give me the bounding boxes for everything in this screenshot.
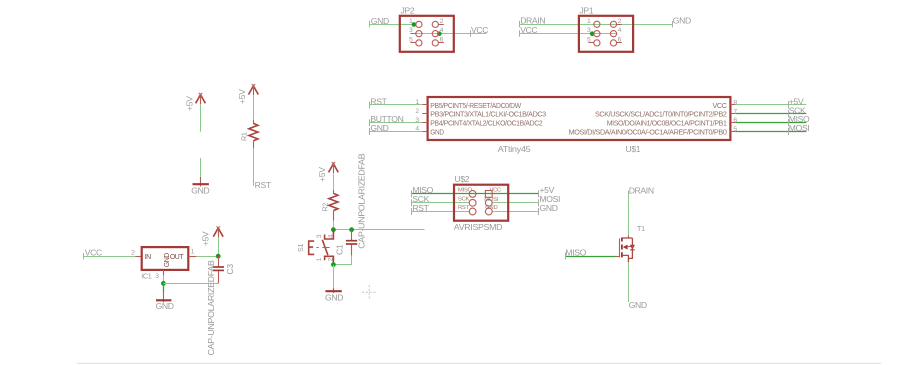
label +5V tick [788,101,790,108]
svg-text:VCC: VCC [85,248,102,258]
wire DRAIN to T1 [628,195,630,236]
label GND tick (right) [672,21,674,28]
R1 bottom pin [253,141,255,149]
ground symbol below S1 [325,288,343,303]
svg-text:IC1: IC1 [141,272,152,281]
svg-text:VCC: VCC [520,25,537,35]
U$1 left pin stubs 1-4 [422,105,427,132]
IC1 pin 2 stub [135,256,142,258]
net MISO wire (through row 1) [411,193,539,195]
wire IC1 gnd down [163,275,165,283]
net GND wire (right row 3) [492,211,539,213]
capacitor C1 [333,153,366,264]
svg-text:ATtiny45: ATtiny45 [498,144,531,154]
svg-text:1: 1 [191,249,195,256]
svg-text:2: 2 [618,18,622,25]
C1 bottom pin [351,245,353,256]
C1 bottom plate [346,243,357,245]
svg-text:GND: GND [540,203,558,213]
+5V arrow pin [333,164,335,173]
label VCC tick [519,30,521,37]
net RST wire [411,211,469,213]
svg-text:MOSI/DI/SDA/AIN0/OC0A/-OC1A/AR: MOSI/DI/SDA/AIN0/OC0A/-OC1A/AREF/PCINT0/… [569,127,727,136]
S1 bottom bracket [325,256,334,264]
label RST tick [369,102,371,109]
T1 body diode triangle [630,245,635,250]
wire +5V to R1 [253,95,255,120]
label SCK tick [788,110,790,117]
+5V arrow pin [218,228,220,237]
S1 top bracket [325,230,334,239]
IC1 pin 3 stub (bottom) [163,270,165,275]
+5V arrow apex cross [216,226,220,230]
svg-text:GND: GND [156,301,174,311]
wire IC1 out to junction [196,256,218,258]
+5V arrow [213,228,223,237]
svg-text:GND: GND [673,16,691,26]
svg-text:VCC: VCC [471,25,488,35]
svg-text:CAP-UNPOLARIZEDFAB: CAP-UNPOLARIZEDFAB [356,153,366,249]
U$1 left net wires [370,96,423,135]
svg-text:U$2: U$2 [455,174,470,184]
GND bar [193,183,209,185]
svg-text:GND: GND [371,16,389,26]
wire R1 to RST [253,148,255,182]
svg-text:5: 5 [409,36,413,43]
junction dot JP2 pin 1 [412,22,417,27]
U$2 pad MISO [469,191,476,198]
T1 channel segments [621,238,623,258]
wire R2 to junction [333,221,335,230]
svg-text:IN: IN [145,254,151,261]
IC1 pin 1 stub [188,256,196,258]
svg-text:3: 3 [587,27,591,34]
label SCK tick [411,199,413,206]
svg-text:1: 1 [587,18,591,25]
U$2 pad GND [485,208,492,215]
ground bar [156,299,171,301]
resistor R2 [321,173,338,230]
+5V arrow pin [200,95,202,104]
label GND tick [538,208,540,215]
R1 top pin [253,120,255,124]
U$1 right pin stubs 8-5 [730,105,735,132]
svg-text:VCC: VCC [490,187,502,193]
+5V arrow [329,164,339,173]
JP2 pin stubs [410,25,443,43]
svg-text:R2: R2 [321,203,330,212]
frame bottom edge [77,362,881,364]
power +5V symbol above C3 [201,226,224,258]
svg-text:GND: GND [325,293,343,303]
junction dot S1 bottom [331,262,336,267]
label VCC tick [83,253,85,260]
net BUTTON wire [333,229,424,231]
net BUTTON wire [370,122,423,124]
switch S1 [296,230,335,265]
svg-text:RST: RST [412,203,429,213]
resistor R1 [240,95,272,190]
svg-text:SCK/USCK/SCL/ADC1/T0/INT0/PCIN: SCK/USCK/SCL/ADC1/T0/INT0/PCINT2/PB2 [595,110,727,119]
ground pin [333,288,335,293]
svg-text:1: 1 [415,99,419,106]
svg-text:RST: RST [370,96,387,106]
net +5V wire [736,104,807,106]
C1 top plate [346,240,357,242]
wire gnd junction to C3 [163,283,218,285]
svg-text:AVRISPSMD: AVRISPSMD [454,222,503,232]
U$2 pad VCC (square) [485,191,492,198]
junction dot JP1 pin 3 [590,31,595,36]
JP1 pin stubs [588,25,621,43]
R1 zigzag [249,123,258,140]
svg-text:JP2: JP2 [401,6,415,16]
svg-text:4: 4 [327,234,334,238]
svg-text:VCC: VCC [713,101,728,110]
wire S1 bottom to ground [333,265,335,288]
C3 top plate [213,266,224,268]
svg-text:2: 2 [131,249,135,256]
svg-text:+5V: +5V [201,231,211,246]
transistor T1 [565,185,653,310]
net MOSI wire (right row 2) [492,202,539,204]
svg-text:4: 4 [618,27,622,34]
label VCC tick [470,30,472,37]
svg-text:C3: C3 [225,264,235,275]
T1 gate pin [615,256,620,258]
U$2 pad SCK [469,199,476,206]
wire gnd junction down [163,283,165,292]
svg-text:1: 1 [409,18,413,25]
S1 actuator dashes [316,247,329,249]
svg-text:1: 1 [316,257,323,261]
JP2 body [400,16,454,52]
net MISO wire to gate [565,256,615,258]
T1 body diode bar [630,249,634,251]
svg-text:MOSI: MOSI [789,123,810,133]
svg-text:6: 6 [440,36,444,43]
svg-text:2: 2 [415,108,419,115]
voltage regulator IC1 [84,247,219,311]
label BUTTON tick [369,119,371,126]
svg-text:GND: GND [370,123,388,133]
U$2 body [454,185,508,221]
svg-text:+5V: +5V [317,167,327,182]
T1 source link [623,255,629,262]
label MISO tick [788,119,790,126]
svg-text:MISO/DO/AIN1/OC0B/OC1A/PCINT1/: MISO/DO/AIN1/OC0B/OC1A/PCINT1/PB1 [607,119,727,128]
net SCK wire [411,202,469,204]
T1 gate bar [619,239,621,258]
label DRAIN tick [628,191,630,197]
svg-text:SCK: SCK [458,196,470,202]
svg-text:7: 7 [733,108,737,115]
svg-text:+5V: +5V [237,89,247,104]
U$2 pad MOSI [485,199,492,206]
T1 drain pin [627,235,629,238]
programming header U$2 AVRISPSMD [411,174,560,232]
svg-text:RST: RST [458,205,470,211]
svg-text:R1: R1 [240,132,249,141]
JP2 pin circles [416,21,422,27]
C1 top pin [351,230,353,240]
svg-text:MISO: MISO [565,247,586,257]
+5V arrow [196,95,206,104]
junction dot C3 top [216,254,221,259]
power +5V symbol (left stub) [184,93,205,132]
IC U$1 ATtiny45 [415,97,737,154]
wire +5V down to junction [218,237,220,256]
C3 bottom pin [218,271,220,284]
svg-text:RST: RST [255,180,272,190]
svg-text:PB4/PCINT4/XTAL2/CLKO/OC1B/ADC: PB4/PCINT4/XTAL2/CLKO/OC1B/ADC2 [430,119,542,128]
svg-text:3: 3 [316,234,323,238]
label RST tick [253,179,255,186]
net VCC wire from JP2 pins 3-4 [416,33,487,35]
R2 bottom pin [333,211,335,221]
U$2 pad RST [469,208,476,215]
power +5V symbol for R1 [237,84,258,104]
wire from +5V [200,104,202,132]
R2 top pin [333,190,335,194]
svg-text:DRAIN: DRAIN [520,16,545,26]
capacitor C3 [206,256,235,355]
svg-text:T1: T1 [637,224,645,233]
+5V arrow apex cross [332,162,336,166]
svg-text:JP1: JP1 [580,6,594,16]
T1 drain bend [622,237,632,239]
svg-text:2: 2 [327,257,334,261]
ground symbol pin [163,292,165,302]
origin cross [362,285,376,300]
net DRAIN wire through JP1 pins 1-2 [519,24,672,26]
+5V arrow pin [253,86,255,95]
svg-text:+5V: +5V [184,96,194,111]
wire +5V to R2 [333,173,335,190]
label MISO tick [411,190,413,197]
svg-text:2: 2 [440,18,444,25]
svg-text:GND: GND [430,127,444,136]
label RST tick [411,208,413,215]
svg-text:MISO: MISO [458,187,473,193]
svg-text:6: 6 [618,36,622,43]
svg-text:GND: GND [485,205,497,211]
label MOSI tick [788,128,790,135]
label DRAIN tick [519,21,521,28]
T1 body arrow [623,245,628,250]
connector JP2 [370,6,489,52]
T1 body link [628,246,633,248]
svg-text:GND: GND [191,186,209,196]
svg-text:C1: C1 [335,244,345,255]
label MISO tick [565,253,567,260]
svg-text:DRAIN: DRAIN [629,185,654,195]
connector JP1 [519,6,691,52]
label GND tick [369,21,371,28]
S1 contact arm [322,240,328,255]
S1 actuator E [309,241,315,254]
+5V arrow apex cross [252,84,256,88]
T1 right vertical [628,238,632,258]
C3 bottom plate [213,269,224,271]
JP1 body [579,16,633,52]
svg-text:3: 3 [409,27,413,34]
net RST wire [370,104,423,106]
junction dot S1 top [331,227,336,232]
svg-text:MOSI: MOSI [484,197,498,203]
ground symbol (left stub) [191,158,209,196]
svg-text:5: 5 [587,36,591,43]
+5V arrow apex cross [199,93,203,97]
R2 zigzag [329,193,338,210]
junction dot JP2 pin 4 [437,31,442,36]
net VCC wire to JP1 pins 3-4 [519,33,616,35]
wire C1 bottom [333,256,351,265]
GND pin [200,177,202,187]
U$1 right net wires [736,96,810,135]
label +5V tick [538,190,540,197]
wire to GND [200,158,202,177]
svg-text:GND: GND [629,300,647,310]
JP1 pin circles [594,21,600,27]
C3 top pin [218,256,220,266]
svg-text:CAP-UNPOLARIZEDFAB: CAP-UNPOLARIZEDFAB [206,260,216,356]
net SCK wire [736,113,807,115]
junction dot IC1 gnd [161,281,166,286]
label MOSI tick [538,199,540,206]
IC1 body [142,247,189,270]
ground bar [325,290,341,292]
svg-text:S1: S1 [296,244,305,252]
wire T1 source to GND [628,262,630,302]
svg-text:U$1: U$1 [626,144,641,154]
+5V arrow [249,86,259,95]
net MOSI wire [736,131,807,133]
svg-text:3: 3 [155,273,159,280]
net VCC wire to IC1 pin 2 [84,256,135,258]
svg-text:4: 4 [440,27,444,34]
U$1 body [428,97,731,140]
svg-text:PB3/PCINT3/XTAL1/CLKI/-OC1B/AD: PB3/PCINT3/XTAL1/CLKI/-OC1B/ADC3 [430,110,546,119]
svg-text:8: 8 [733,99,737,106]
power +5V symbol for R2 [317,162,338,182]
net MISO wire [736,122,807,124]
svg-text:OUT: OUT [170,254,184,261]
svg-text:PB5/PCINT5/-RESET/ADC0/DW: PB5/PCINT5/-RESET/ADC0/DW [430,101,522,110]
junction dot C1 top [349,227,354,232]
net GND wire [370,131,423,133]
label GND tick [369,128,371,135]
net GND wire to JP2 pin 1 [370,24,416,26]
